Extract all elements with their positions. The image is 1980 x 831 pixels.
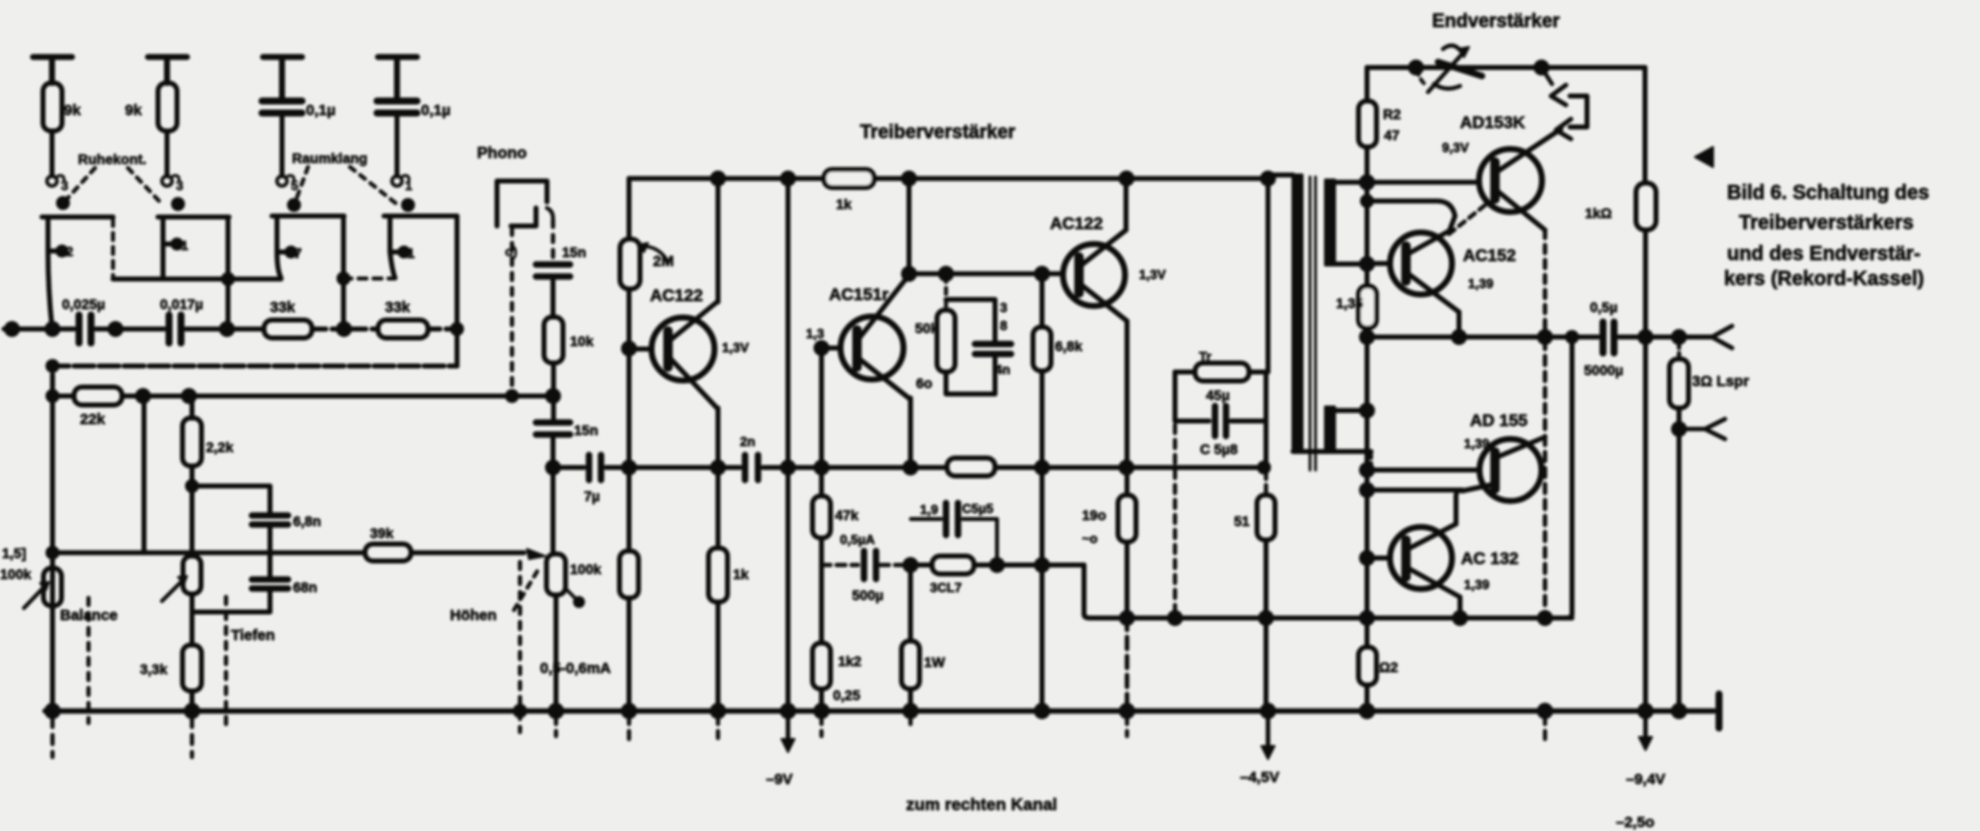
svg-text:22k: 22k [80,411,106,428]
svg-text:0,017µ: 0,017µ [160,296,203,312]
connector J1 phono socket [497,181,553,226]
wire TR1 primary feed x1268 [1266,179,1271,373]
wire y552 tone line [48,548,365,557]
svg-text:47k: 47k [835,507,859,523]
resistor R7 3.3k [183,645,202,711]
svg-text:–4,5V: –4,5V [1240,769,1279,786]
svg-text:Balance: Balance [60,607,118,624]
wire TR1 primary bottom stub [1293,452,1371,469]
resistor R6 2.2k vertical [183,396,202,556]
svg-text:Tr: Tr [1199,349,1211,364]
svg-text:Endverstärker: Endverstärker [1432,11,1560,32]
resistor R8 39k on tone line [365,544,524,561]
svg-text:10k: 10k [570,333,594,349]
wire x1572 output to feedback [1566,337,1572,618]
svg-text:0,5µ: 0,5µ [1590,299,1618,315]
capacitor C6 0.017u plates [169,315,264,343]
potentiometer P2 wiper arrow [162,576,187,601]
label Raumklang pointer dashes [296,167,398,205]
capacitor C10 15n [536,423,570,555]
speaker fork 1 [1712,326,1732,348]
svg-text:9k: 9k [64,102,81,119]
speaker fork 2 [1679,419,1725,439]
svg-text:4n: 4n [995,362,1010,377]
bus stub below x52 [50,718,54,757]
wire x629 vertical [627,179,632,240]
svg-text:o): o) [505,244,517,259]
svg-text:47: 47 [1384,127,1400,143]
resistor R16 50k [937,300,995,395]
svg-text:1,35: 1,35 [1336,295,1363,311]
svg-text:7µ: 7µ [584,488,600,504]
ground G1 [33,57,72,83]
svg-text:Ω2: Ω2 [1379,659,1398,675]
resistor R18 190 emitter [1118,495,1136,711]
capacitor C12 on line y467 [745,455,944,480]
svg-text:Höhen: Höhen [450,607,497,624]
wire right column x1645 [1643,68,1648,184]
feedback network R16 50k dashed lead [944,276,948,310]
resistor R15 47k [813,496,831,565]
transformer TR1 primary winding [1293,175,1302,452]
wire T3 emitter x1127 [1125,321,1130,495]
svg-text:0,1µ: 0,1µ [421,102,451,119]
svg-text:1: 1 [181,238,188,253]
svg-text:3: 3 [1000,300,1007,315]
wire T5 collector drop [1457,312,1462,337]
supply arrow x1268 minus4.5V [1262,711,1275,759]
resistor R27 1k right [1636,183,1656,711]
svg-text:68n: 68n [293,579,317,595]
svg-text:1,39: 1,39 [1464,436,1489,451]
label Ruhekont pointer dashes [66,168,160,202]
wire x788 supply vertical [786,179,791,712]
switch S1 contact circle [47,176,64,187]
resistor R25 135 [1359,286,1377,328]
ground G3 [263,57,302,98]
capacitor C11 7u plates [589,455,740,480]
svg-text:33k: 33k [385,299,411,316]
svg-text:51: 51 [1234,513,1250,529]
ground G2 [148,57,187,83]
trimmer R26 on rail [1417,46,1482,93]
svg-text:1k2: 1k2 [838,653,862,669]
label hoehen pointer dashes [514,570,538,610]
svg-text:Tiefen: Tiefen [231,627,275,644]
svg-text:6,8k: 6,8k [1055,338,1082,354]
output line y337 [1362,332,1599,343]
dashed link AC152 emitter to T4 [1449,202,1489,234]
resistor R20 1k2 [813,565,831,711]
svg-text:0,025µ: 0,025µ [62,296,105,312]
feedback line y618 [1090,613,1572,624]
capacitor C13 feedback [975,344,1011,394]
wire dashed x520 below [518,562,522,732]
svg-text:1,39: 1,39 [1468,276,1493,291]
transformer TR1 core [1310,177,1316,470]
resistor R9 10k [544,317,563,421]
wire TR1 primary top stub [1268,173,1293,178]
wire x144 link [142,396,147,553]
svg-text:19o: 19o [1082,507,1106,523]
svg-text:100k: 100k [0,566,31,582]
svg-text:6o: 6o [916,375,932,391]
wire phono pin dashed x512 [508,228,517,401]
capacitor C4 0.1u [377,101,417,176]
transistor T2 AC151 [822,275,911,399]
svg-text:AC 132: AC 132 [1461,549,1519,568]
svg-text:Raumklang: Raumklang [292,150,367,166]
bus end terminator [1716,694,1723,728]
switch S3 [272,201,348,328]
svg-text:1W: 1W [924,654,946,670]
svg-text:6,8n: 6,8n [293,513,321,529]
wire output top rail y67 [1367,62,1645,73]
svg-text:kers (Rekord-Kassel): kers (Rekord-Kassel) [1724,268,1924,290]
wire elbow to C7 [192,486,270,512]
potentiometer P2 tiefen body [183,556,201,645]
svg-text:2M: 2M [653,253,674,270]
potentiometer P1 balance body [44,553,62,711]
wire T3 collector x1126 [1124,179,1129,231]
switch S2 contact circle [162,176,179,187]
zobel capacitor C16 [1175,372,1266,436]
svg-text:15n: 15n [574,422,598,438]
resistor R13 4.7k [620,551,639,711]
capacitor C3 0.1u [262,101,302,176]
node arrow into P3 [527,549,545,559]
svg-text:1: 1 [407,245,415,261]
svg-text:Treiberverstärker: Treiberverstärker [860,122,1016,143]
svg-text:1: 1 [405,178,412,193]
svg-text:5: 5 [291,178,298,193]
svg-text:9,3V: 9,3V [1442,140,1469,155]
svg-text:1,39: 1,39 [1464,577,1489,592]
wire driver coupling y201 [1367,201,1455,232]
resistor R10 6.8k on line y467 [947,458,1264,476]
electrolytic C15 500u dashed line [822,551,911,579]
bus stub below x910 [908,716,912,730]
svg-text:1,3V: 1,3V [722,340,749,355]
plug contacts emitter T4 [1542,68,1588,140]
bus stub below x718 [716,716,720,738]
resistor R14 1k emitter T1 [709,548,728,711]
svg-text:~o: ~o [1082,531,1098,546]
wire coupling line y467 [553,465,584,470]
wire midpoint y490 [1362,485,1463,496]
svg-text:8: 8 [1000,318,1007,333]
svg-text:Ruhekont.: Ruhekont. [78,151,146,167]
transformer TR1 secondary lower [1326,407,1335,452]
svg-text:3Ω Lspr: 3Ω Lspr [1692,373,1749,390]
svg-text:und des Endverstär-: und des Endverstär- [1727,243,1920,265]
wire input signal line y329 [4,324,74,335]
svg-text:C5µ5: C5µ5 [962,501,993,516]
svg-text:50k: 50k [915,320,939,336]
ground bus y711 [45,706,1714,717]
wire T2 base x821 [816,343,827,497]
potentiometer P1 wiper dashes [86,598,90,723]
bus stub below x556 [554,716,558,736]
capacitor C17 output plates [1603,322,1712,353]
svg-text:1k: 1k [733,566,749,582]
wire left vertical x52 [48,392,57,712]
resistor R1 9k [43,83,62,176]
svg-text:1,5]: 1,5] [2,545,26,561]
switch S2 [158,200,229,328]
svg-text:3,3k: 3,3k [140,661,167,677]
svg-text:Bild 6. Schaltung des: Bild 6. Schaltung des [1727,182,1929,204]
svg-text:–2,5o: –2,5o [1616,814,1654,831]
resistor R19 NTC block [932,556,974,574]
bus stub below x1545 [1543,716,1547,740]
svg-text:–9,4V: –9,4V [1626,771,1665,788]
svg-text:15n: 15n [562,244,586,260]
wire T7 emitter down [1458,597,1463,618]
svg-text:AC151r: AC151r [829,285,889,304]
svg-text:0,1µ: 0,1µ [306,102,336,119]
transistor T3 AC122 [1063,230,1127,321]
resistor R5 22k horizontal [53,387,554,405]
bias chain y565 line [905,560,1084,571]
caption pointer arrow [1695,147,1713,167]
wire TR1 sec upper top stub to T4 base [1334,177,1479,188]
svg-text:C 5µ8: C 5µ8 [1200,441,1238,457]
switch S4 [384,201,457,367]
resistor R4 33k [378,320,462,338]
potentiometer P3 hoehen 100k body [547,554,583,711]
svg-text:45µ: 45µ [1206,387,1230,403]
resistor R17 6.8k collector load [1033,274,1051,711]
bus stub below x629 [627,716,631,740]
bus stub below x1127 [1125,716,1129,736]
svg-text:9k: 9k [125,102,142,119]
transistor T1 AC122 [629,302,717,408]
svg-text:1kΩ: 1kΩ [1585,205,1612,221]
wire x909 collector link [904,179,915,280]
resistor R24 R2-47 [1359,68,1377,338]
zobel dashed drop x1175 [1173,425,1177,616]
transistor T4 AD153K [1479,129,1561,230]
capacitor C9 15n [536,265,570,318]
svg-text:1,3: 1,3 [806,326,824,341]
svg-text:39k: 39k [370,525,394,541]
svg-text:AD 155: AD 155 [1470,411,1528,430]
svg-text:3: 3 [61,178,68,193]
capacitor C8 68n [192,580,288,613]
capacitor C5 0.025u plates [79,315,164,343]
svg-text:1,3V: 1,3V [1139,267,1166,282]
wire x1545 below output dashed [1543,340,1547,616]
svg-text:Treiberverstärkers: Treiberverstärkers [1739,212,1914,234]
svg-text:zum rechten Kanal: zum rechten Kanal [906,795,1057,814]
resistor R11 1k on rail [824,170,874,188]
wire return loop y366 [48,329,457,396]
resistor R28 3ohm lspr [1670,342,1689,711]
svg-text:1,9: 1,9 [920,502,938,517]
bus stub below x190 [190,718,194,757]
svg-text:–9V: –9V [766,771,793,788]
wire y565 elbow down x1084 [1084,565,1090,618]
ground G4 [378,57,417,98]
bus stub below x821 [819,716,823,736]
wire T7 collector up [1456,490,1462,524]
svg-text:7: 7 [294,245,302,261]
switch S4 contact circle [392,176,409,187]
dashed T4 collector x1545 [1543,230,1547,334]
resistor R3 33k [264,320,378,338]
resistor R21 1W [902,565,920,711]
svg-text:2: 2 [66,244,73,259]
transistor T6 AD155 [1362,437,1546,501]
svg-text:AC122: AC122 [650,286,703,305]
wire collector line y274 [909,268,1064,279]
transformer TR1 secondary upper [1326,180,1335,265]
wire TR1 sec lower top stub [1334,405,1373,416]
svg-text:R2: R2 [1383,106,1401,122]
switch S4 dashed link [344,277,396,281]
svg-text:500µ: 500µ [852,587,883,603]
svg-text:AC122: AC122 [1050,214,1103,233]
resistor R29 emitter T7 [1359,647,1377,711]
capacitor C7 6.8n [252,516,288,577]
wire TR1 sec upper bottom stub [1334,259,1373,270]
switch S1 dashed throw [111,219,115,277]
potentiometer P1 wiper arrow [24,582,49,608]
wire top rail y178 [629,173,1274,184]
wire link S1-S2-S3 lower bar [113,275,281,284]
resistor R23 51 [1257,495,1275,711]
resistor R2 9k [158,83,177,176]
svg-text:5000µ: 5000µ [1584,362,1623,378]
capacitor C14 above NTC [911,503,997,565]
svg-text:Phono: Phono [477,145,527,162]
wire x1367 lower drop [1365,337,1370,647]
svg-text:3CL7: 3CL7 [930,580,962,595]
svg-text:0,5-0,6mA: 0,5-0,6mA [540,660,611,677]
svg-text:AD153K: AD153K [1460,113,1526,132]
svg-text:2n: 2n [740,434,755,449]
svg-text:2,2k: 2,2k [206,439,233,455]
svg-text:0,5µA: 0,5µA [840,532,876,547]
transistor T5 AC152 [1367,231,1459,312]
wire phono pin dashed x553 [551,220,555,262]
transistor T7 AC132 [1362,524,1461,597]
svg-text:100k: 100k [570,561,601,577]
svg-text:3: 3 [176,178,183,193]
supply arrow x788 minus9V [782,711,795,752]
wire T1 collector x718 [716,179,721,303]
wire T2 emitter to x910 [908,398,913,468]
zobel resistor R22 [1175,363,1266,381]
svg-text:AC152: AC152 [1463,246,1516,265]
svg-text:33k: 33k [270,299,296,316]
wire x1266 drop [1260,421,1269,495]
supply arrow x1645 minus9.4V [1639,711,1652,750]
trimmer arrow R12 [638,243,668,262]
wire T1 emitter x718 [716,408,721,548]
switch S3 contact circle [277,176,294,187]
potentiometer P2 wiper dashes [224,597,228,726]
svg-text:1k: 1k [836,196,852,212]
resistor R12 2M bias [620,239,640,551]
switch S1 [42,199,113,328]
svg-text:0,25: 0,25 [833,687,860,703]
